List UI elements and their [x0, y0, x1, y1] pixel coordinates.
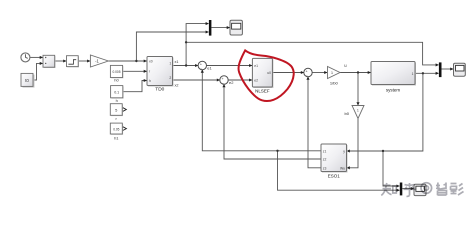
wire b0 to ESO1 Wu: [347, 119, 358, 168]
constant h 0.1: [111, 86, 124, 103]
wire c1 to TD0 in2: [123, 70, 147, 72]
mux1: [209, 20, 212, 36]
svg-text:1: 1: [412, 72, 414, 76]
svg-text:b0: b0: [345, 111, 350, 116]
svg-text:0.1: 0.1: [114, 91, 119, 95]
scope1: [230, 20, 242, 35]
constant r 5: [110, 104, 126, 121]
wire NLSEF u0 to sum3: [273, 72, 304, 74]
wire mux1 to scope1: [211, 27, 229, 29]
wire c2 to TD0 in3: [123, 81, 147, 92]
wire riser to mux1 bottom input: [136, 32, 208, 61]
gain 1/b0: [328, 67, 341, 86]
svg-text:1: 1: [169, 62, 171, 66]
wire clock to switch: [30, 56, 43, 58]
svg-text:h: h: [116, 98, 118, 103]
glyph at: [421, 183, 432, 194]
clock source: [21, 53, 30, 62]
svg-text:1: 1: [357, 109, 359, 113]
wire TD0 out1 to e1: [173, 65, 198, 67]
sum e1: [198, 61, 206, 70]
wire z1 branch to mux3 bottom input: [278, 151, 400, 190]
wire gain 1/b0 to system: [340, 72, 371, 74]
svg-text:x0: x0: [149, 60, 153, 64]
svg-text:z3: z3: [323, 166, 327, 170]
scope3: [414, 184, 426, 195]
sum3: [304, 68, 312, 77]
wire sum3 to gain 1/b0: [312, 72, 327, 74]
svg-text:t0: t0: [25, 78, 29, 83]
wire z2 to e2 bottom: [224, 85, 321, 160]
wire gain to TD0 in1: [108, 60, 146, 62]
svg-text:h1: h1: [114, 136, 119, 141]
svg-text:z1: z1: [323, 149, 327, 153]
wire z1 to e1 bottom: [202, 70, 321, 151]
svg-text:0.005: 0.005: [113, 70, 121, 74]
mux2: [439, 62, 442, 77]
wire y feedback to ESO1: [347, 73, 423, 151]
svg-text:e2: e2: [229, 80, 234, 85]
svg-text:x2: x2: [175, 83, 179, 87]
wire u branch down to b0: [357, 73, 359, 106]
svg-text:e1: e1: [207, 65, 212, 70]
svg-text:Wu: Wu: [340, 166, 345, 170]
scope2: [454, 63, 466, 76]
glyph hu: [404, 183, 416, 196]
svg-text:2: 2: [169, 76, 171, 80]
gain -1: [90, 55, 108, 67]
arrowheads: [40, 22, 454, 192]
wire e1 to NLSEF in1: [206, 65, 252, 67]
svg-text:y: y: [343, 150, 345, 154]
glyph zhi: [381, 183, 396, 195]
svg-text:0.05: 0.05: [113, 127, 119, 131]
sign block: [67, 56, 80, 68]
svg-text:x1: x1: [175, 60, 179, 64]
wire e2 to NLSEF in2: [228, 79, 252, 81]
svg-text:h: h: [149, 79, 151, 83]
sum e2: [220, 76, 228, 85]
ESO1 block: [321, 144, 348, 179]
TD0 block: [147, 57, 174, 93]
constant t0: [21, 73, 35, 87]
wire z3 to sum3 bottom: [308, 77, 321, 168]
svg-text:TD0: TD0: [155, 87, 164, 93]
wire TD0 out2 to e2: [173, 79, 220, 81]
wire t0 to switch: [33, 63, 43, 80]
wire riser to mux1 top input: [186, 24, 208, 66]
svg-text:u0: u0: [267, 71, 271, 75]
gain b0 (down): [345, 106, 364, 119]
system block: [371, 62, 416, 93]
switch block: [43, 55, 56, 68]
wire y branch to mux3 top input: [383, 151, 399, 186]
constant h1 0.05: [110, 123, 126, 141]
wire mux2 to scope2: [442, 68, 454, 70]
svg-text:e1: e1: [254, 64, 258, 68]
watermark zhihu @beiying: [381, 183, 463, 197]
red annotation loop around NLSEF: [239, 50, 294, 101]
wire sign to gain: [78, 60, 90, 62]
svg-text:NLSEF: NLSEF: [255, 89, 270, 94]
svg-text:z2: z2: [323, 158, 327, 162]
svg-text:e2: e2: [254, 78, 258, 82]
svg-text:system: system: [386, 88, 401, 93]
wire switch to sign: [55, 60, 66, 62]
svg-text:-1: -1: [95, 59, 99, 64]
svg-text:1: 1: [331, 71, 333, 75]
wire mux3 to scope3: [402, 188, 413, 190]
glyph bei: [436, 183, 447, 196]
wire long top line x1 to mux2 top input: [186, 42, 438, 65]
mux3: [400, 183, 403, 196]
svg-text:h0: h0: [114, 77, 119, 82]
svg-text:ESO1: ESO1: [328, 174, 341, 179]
glyph ying: [451, 184, 464, 196]
wire system out to mux2 bottom input: [415, 72, 438, 74]
constant h0 0.005: [110, 65, 123, 82]
NLSEF block: [252, 58, 273, 93]
svg-text:1/b0: 1/b0: [330, 81, 339, 86]
